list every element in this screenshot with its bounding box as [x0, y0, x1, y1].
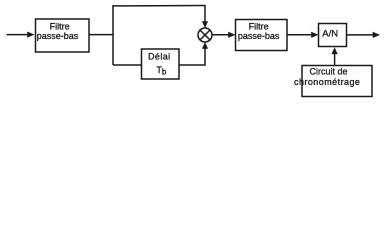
svg-text:Délai: Délai [148, 52, 171, 62]
wire down into mixer [204, 6, 206, 23]
svg-text:A/N: A/N [322, 29, 338, 40]
wire branch to delay [113, 64, 142, 66]
delay box Tb [142, 49, 180, 79]
wire delay to mixer [179, 49, 205, 66]
filter F1 box [36, 19, 90, 52]
svg-text:Filtre: Filtre [249, 22, 269, 32]
node branch junction [112, 6, 114, 65]
wire F2 to A/N [287, 34, 312, 36]
label Circuit de chronométrage [294, 67, 360, 87]
wire top line [112, 5, 205, 7]
label F1 Filtre passe-bas [37, 21, 79, 41]
label Délai Tb [148, 52, 171, 77]
wire timing circuit to A/N [334, 54, 336, 66]
svg-text:chronométrage: chronométrage [294, 77, 360, 87]
mixer (multiplier) U1 [198, 28, 212, 42]
svg-text:passe-bas: passe-bas [238, 31, 280, 41]
label F2 Filtre passe-bas [238, 22, 280, 41]
svg-text:Circuit de: Circuit de [309, 67, 347, 77]
timing circuit box [302, 66, 372, 97]
converter A/N box [319, 24, 347, 47]
wire input arrow [7, 34, 29, 36]
svg-text:Tb: Tb [156, 65, 167, 77]
filter F2 box [236, 20, 288, 51]
wire output arrow [347, 34, 374, 36]
svg-text:Filtre: Filtre [50, 21, 70, 31]
svg-text:passe-bas: passe-bas [37, 31, 79, 41]
wire F1 to branch node [89, 34, 114, 36]
wire mixer output to F2 [212, 34, 229, 36]
